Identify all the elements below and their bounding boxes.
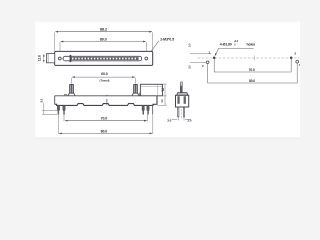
- svg-text:11.1: 11.1: [161, 87, 164, 92]
- dim 60.0 line: [72, 76, 134, 78]
- hole 3: [290, 57, 293, 60]
- pcb centre cross: [254, 56, 256, 61]
- pin front R1: [142, 105, 144, 114]
- left tab inner line: [47, 54, 49, 63]
- white drawing panel: [36, 23, 300, 138]
- side wall left: [177, 96, 179, 104]
- dim 70.0 extensions: [64, 111, 148, 121]
- pcb centreline: [198, 57, 300, 59]
- hole cross dash: [61, 57, 63, 59]
- hole 4: [296, 60, 299, 63]
- dim 70.0 line: [65, 120, 147, 122]
- dim 12.8 line: [43, 54, 45, 62]
- side dim lines: [172, 116, 191, 120]
- block inner top line: [141, 85, 162, 87]
- side carriage cap: [177, 93, 188, 96]
- svg-text:88.2: 88.2: [100, 28, 107, 32]
- svg-text:60.0: 60.0: [101, 72, 108, 76]
- pcb dim 70.0 bracket: [214, 59, 291, 72]
- block inner right line: [157, 85, 159, 96]
- slider position mark: [70, 55, 72, 62]
- serration band: [71, 57, 138, 60]
- dim 3.5 vertical: [43, 103, 45, 115]
- block left foot: [139, 93, 142, 96]
- hole 2: [206, 61, 209, 64]
- svg-text:80.0: 80.0: [100, 37, 107, 41]
- panel top soft edge: [36, 21, 300, 23]
- svg-text:70.0: 70.0: [101, 117, 108, 121]
- motor block: [140, 84, 162, 96]
- pin front L2: [63, 105, 65, 114]
- svg-text:3.5: 3.5: [39, 98, 43, 102]
- dim 88.2 line: [56, 31, 152, 33]
- dim 80.0 line: [61, 41, 146, 43]
- hole 1: [213, 57, 216, 60]
- side centreline: [180, 81, 182, 119]
- dim 80.0 extension lines: [60, 42, 146, 57]
- mounting hole left: [58, 57, 61, 60]
- lever post right: [132, 84, 139, 96]
- front body bottom edge with notches: [55, 96, 157, 106]
- side lever knurl: [180, 86, 182, 93]
- side body: [176, 95, 189, 107]
- serration windows: [72, 58, 136, 60]
- svg-text:70.0: 70.0: [249, 68, 255, 72]
- pin reference lines left: [42, 110, 57, 114]
- dim 60.0 extensions: [72, 78, 136, 84]
- centre mark: [106, 95, 108, 106]
- dim 80.0 line bottom: [59, 132, 152, 134]
- svg-text:holes: holes: [247, 42, 256, 46]
- block right tab: [163, 89, 164, 91]
- mounting hole right: [145, 57, 148, 60]
- right dim vertical line: [164, 84, 166, 105]
- slot outline: [63, 56, 142, 61]
- svg-text:(Travel): (Travel): [99, 79, 109, 83]
- top view body: [55, 51, 153, 65]
- pin front L1: [57, 105, 59, 114]
- lever post left: [68, 84, 75, 96]
- side pin B: [183, 107, 184, 117]
- body top small tab: [65, 94, 67, 96]
- dim 88.2 extension lines: [55, 32, 153, 51]
- svg-text:4: 4: [299, 63, 300, 67]
- left tab: [47, 54, 55, 63]
- dim 80.0 extensions: [59, 106, 153, 134]
- svg-text:2-M3*0.5: 2-M3*0.5: [160, 37, 174, 41]
- side lever stem: [180, 82, 182, 93]
- svg-text:2.0: 2.0: [187, 118, 191, 122]
- svg-text:3.0: 3.0: [167, 118, 171, 122]
- svg-text:80.0: 80.0: [101, 129, 108, 133]
- leader 2-M2*0.5: [147, 41, 158, 57]
- pcb dim 80.0 bracket: [208, 63, 298, 83]
- panel left soft edge: [35, 21, 36, 137]
- svg-text:12.8: 12.8: [38, 55, 42, 61]
- note underline: [219, 48, 254, 50]
- side pin A: [178, 107, 179, 117]
- page background: [0, 0, 300, 149]
- pin front R2: [147, 105, 149, 114]
- right dim ticks: [157, 84, 166, 105]
- pin front R3 stub: [152, 106, 154, 115]
- panel bottom shadow: [35, 138, 300, 139]
- front body top edge: [55, 95, 141, 97]
- side wall right: [184, 96, 186, 104]
- leader to hole 1: [215, 49, 219, 56]
- svg-text:4-Ø1.80: 4-Ø1.80: [220, 42, 232, 46]
- front body left edge: [54, 96, 56, 105]
- svg-text:80.0: 80.0: [249, 79, 255, 83]
